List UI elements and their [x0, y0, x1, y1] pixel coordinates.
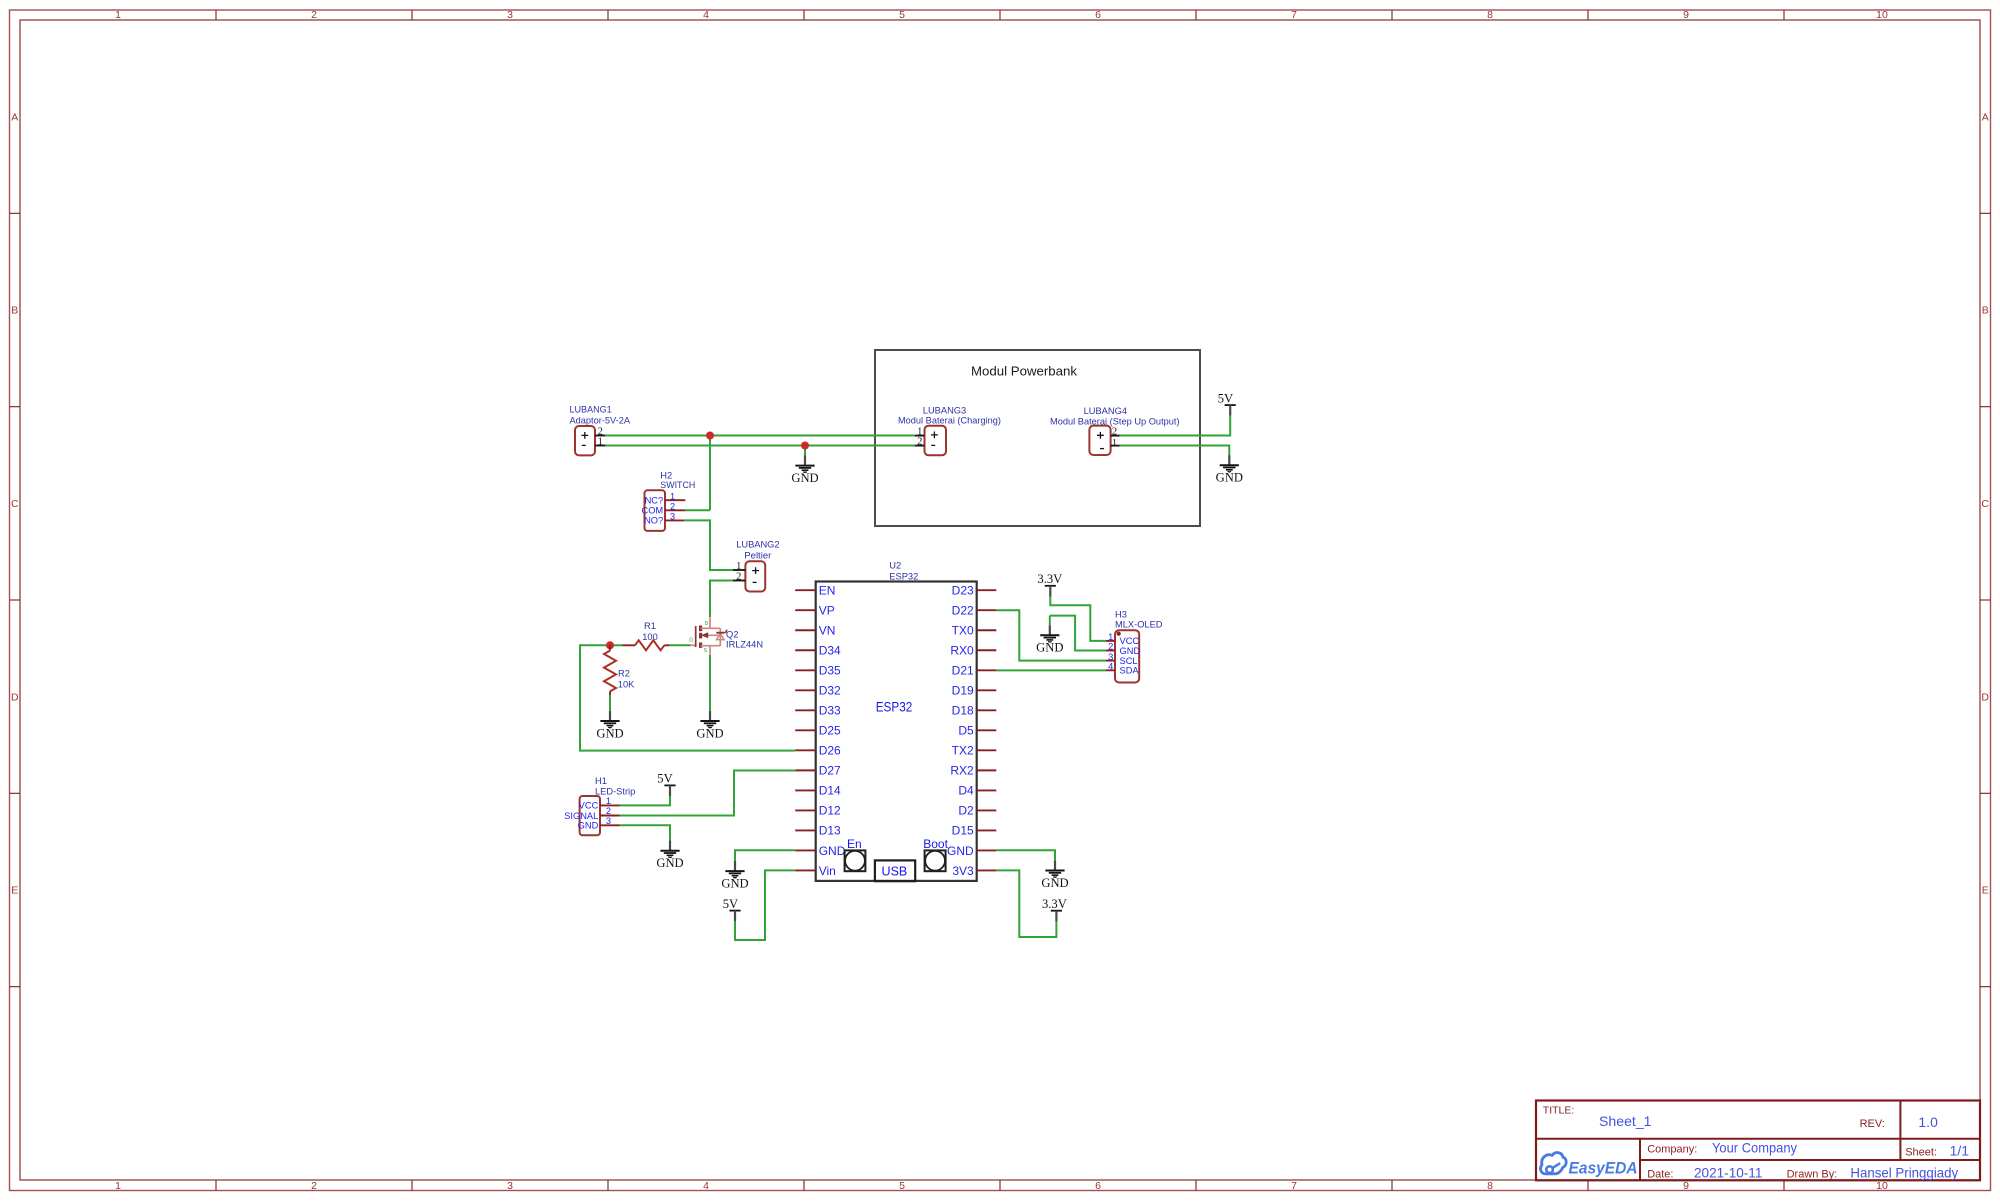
- svg-text:Hansel Pringgiady: Hansel Pringgiady: [1850, 1165, 1958, 1181]
- EasyEDA logo: [1541, 1153, 1638, 1178]
- svg-text:NO?: NO?: [644, 516, 663, 526]
- svg-text:3: 3: [606, 816, 611, 826]
- pin VN (left 3): [795, 624, 835, 638]
- svg-text:2021-10-11: 2021-10-11: [1694, 1165, 1763, 1181]
- svg-text:1/1: 1/1: [1950, 1143, 1970, 1159]
- svg-text:Peltier: Peltier: [744, 551, 771, 561]
- pin D18 (right 7): [952, 704, 997, 718]
- svg-text:D14: D14: [819, 784, 841, 798]
- title block: [1536, 1101, 1980, 1181]
- svg-text:D: D: [11, 691, 19, 703]
- pin Vin (left 15): [795, 864, 836, 878]
- svg-text:100: 100: [642, 632, 658, 642]
- svg-text:MLX-OLED: MLX-OLED: [1115, 619, 1163, 629]
- svg-text:Vin: Vin: [819, 864, 836, 878]
- svg-text:LUBANG1: LUBANG1: [570, 405, 612, 415]
- svg-text:3: 3: [1108, 652, 1113, 662]
- svg-text:GND: GND: [578, 821, 599, 831]
- junction B: [801, 442, 809, 450]
- svg-text:GND: GND: [819, 844, 846, 858]
- wire: [669, 644, 690, 646]
- svg-text:3V3: 3V3: [952, 864, 974, 878]
- connector LUBANG4 Modul Baterai (Step Up Output): [1050, 406, 1180, 455]
- wire: [709, 436, 711, 511]
- svg-text:USB: USB: [882, 864, 908, 878]
- power 5V rail: [1218, 391, 1236, 415]
- svg-text:IRLZ44N: IRLZ44N: [726, 639, 763, 649]
- pin EN (left 1): [795, 584, 835, 598]
- svg-text:RX2: RX2: [950, 764, 974, 778]
- svg-text:3.3V: 3.3V: [1037, 572, 1062, 586]
- svg-text:3: 3: [507, 1180, 513, 1192]
- button En: [845, 837, 866, 871]
- pin D21 (right 5): [952, 664, 997, 678]
- svg-text:SDA: SDA: [1120, 666, 1140, 676]
- svg-text:SIGNAL: SIGNAL: [564, 811, 598, 821]
- wire: [996, 870, 1056, 937]
- pin TX0 (right 3): [952, 624, 997, 638]
- ground LED-Strip: [656, 841, 683, 870]
- pin D13 (left 13): [795, 824, 841, 838]
- svg-text:Sheet_1: Sheet_1: [1599, 1113, 1652, 1129]
- wire: [684, 520, 733, 570]
- pin D25 (left 8): [795, 724, 841, 738]
- svg-text:LUBANG3: LUBANG3: [923, 405, 966, 415]
- wire: [685, 509, 710, 511]
- svg-text:GND: GND: [696, 726, 723, 740]
- svg-text:1: 1: [115, 9, 121, 21]
- pin D23 (right 1): [952, 584, 997, 598]
- svg-text:En: En: [847, 837, 862, 851]
- svg-text:10K: 10K: [618, 680, 635, 690]
- pin RX0 (right 4): [950, 644, 996, 658]
- svg-text:TX2: TX2: [952, 744, 974, 758]
- svg-text:10: 10: [1876, 9, 1888, 21]
- svg-text:D34: D34: [819, 644, 841, 658]
- svg-text:7: 7: [1291, 9, 1297, 21]
- wire: [735, 850, 795, 861]
- connector H2 SWITCH: [641, 471, 695, 531]
- pin RX2 (right 10): [950, 764, 996, 778]
- svg-text:D4: D4: [958, 784, 974, 798]
- svg-text:2: 2: [1108, 642, 1113, 652]
- pin D15 (right 13): [952, 824, 997, 838]
- power 3.3V to OLED VCC: [1037, 572, 1062, 596]
- wire: [1050, 595, 1106, 641]
- svg-text:A: A: [11, 111, 18, 123]
- svg-text:1.0: 1.0: [1918, 1114, 1938, 1130]
- svg-text:Your Company: Your Company: [1712, 1140, 1797, 1156]
- svg-text:D18: D18: [952, 704, 974, 718]
- svg-text:GND: GND: [947, 844, 974, 858]
- power 3.3V to 3V3 pin: [1042, 897, 1067, 921]
- pin TX2 (right 9): [952, 744, 997, 758]
- pin D14 (left 11): [795, 784, 841, 798]
- svg-text:1: 1: [736, 561, 741, 572]
- svg-text:Sheet:: Sheet:: [1905, 1147, 1937, 1159]
- svg-text:D2: D2: [958, 804, 974, 818]
- svg-text:GND: GND: [1036, 641, 1063, 655]
- svg-text:Modul Powerbank: Modul Powerbank: [971, 364, 1077, 379]
- pin GND (left 14): [795, 844, 846, 858]
- svg-text:3: 3: [507, 9, 513, 21]
- svg-text:D23: D23: [952, 584, 974, 598]
- connector LUBANG1 Adaptor-5V-2A: [570, 405, 631, 456]
- svg-text:1: 1: [670, 491, 675, 501]
- svg-text:EasyEDA: EasyEDA: [1569, 1159, 1638, 1178]
- svg-text:2: 2: [917, 437, 922, 448]
- connector LUBANG2 Peltier: [733, 540, 780, 592]
- junction C: [606, 641, 614, 649]
- ground R2: [596, 711, 623, 740]
- ground rail right: [1216, 455, 1243, 484]
- USB port label: [875, 860, 915, 881]
- pin D4 (right 11): [958, 784, 996, 798]
- svg-text:3: 3: [670, 512, 675, 522]
- svg-text:VCC: VCC: [579, 801, 599, 811]
- svg-text:5V: 5V: [723, 897, 738, 911]
- svg-text:S: S: [704, 648, 708, 654]
- wire: [996, 850, 1055, 860]
- pin D26 (left 9): [795, 744, 841, 758]
- svg-text:Boot: Boot: [923, 837, 948, 851]
- svg-text:D: D: [705, 621, 709, 627]
- wire: [620, 825, 671, 840]
- svg-text:2: 2: [311, 9, 317, 21]
- wire: [804, 446, 806, 456]
- svg-text:2: 2: [1112, 426, 1117, 437]
- block Modul Powerbank: [875, 350, 1200, 526]
- pin D34 (left 4): [795, 644, 841, 658]
- svg-text:6: 6: [1095, 9, 1101, 21]
- wire: [609, 695, 611, 711]
- svg-text:1: 1: [115, 1180, 121, 1192]
- svg-text:SCL: SCL: [1120, 656, 1138, 666]
- svg-text:VCC: VCC: [1120, 636, 1140, 646]
- svg-text:D15: D15: [952, 824, 974, 838]
- svg-text:GND: GND: [791, 471, 818, 485]
- pin D22 (right 2): [952, 604, 997, 618]
- svg-text:U2: U2: [889, 560, 901, 570]
- svg-text:E: E: [11, 885, 18, 897]
- svg-text:D13: D13: [819, 824, 841, 838]
- pin D2 (right 12): [958, 804, 996, 818]
- svg-text:GND: GND: [1216, 471, 1243, 485]
- pin D5 (right 8): [958, 724, 996, 738]
- svg-text:9: 9: [1683, 9, 1689, 21]
- svg-text:B: B: [1982, 305, 1989, 317]
- svg-text:REV:: REV:: [1860, 1118, 1885, 1130]
- svg-text:D22: D22: [952, 604, 974, 618]
- pin D35 (left 5): [795, 664, 841, 678]
- pin D27 (left 10): [795, 764, 841, 778]
- ground OLED GND: [1036, 625, 1063, 654]
- wire: [580, 645, 795, 750]
- svg-text:Q2: Q2: [726, 629, 738, 639]
- svg-text:VN: VN: [819, 624, 836, 638]
- svg-text:A: A: [1982, 111, 1989, 123]
- svg-text:8: 8: [1487, 1180, 1493, 1192]
- svg-text:4: 4: [703, 9, 709, 21]
- svg-text:D35: D35: [819, 664, 841, 678]
- svg-text:E: E: [1982, 885, 1989, 897]
- svg-text:1: 1: [598, 436, 603, 447]
- svg-text:TITLE:: TITLE:: [1543, 1104, 1575, 1116]
- wire: [710, 581, 733, 618]
- svg-text:D12: D12: [819, 804, 841, 818]
- ground ESP32 GND right: [1041, 860, 1068, 889]
- svg-text:Drawn By:: Drawn By:: [1787, 1169, 1838, 1181]
- svg-text:Modul Baterai (Step Up Output): Modul Baterai (Step Up Output): [1050, 416, 1180, 426]
- wire: [610, 644, 623, 646]
- svg-text:LED-Strip: LED-Strip: [595, 787, 635, 797]
- pin D33 (left 7): [795, 704, 841, 718]
- svg-text:4: 4: [1108, 662, 1113, 672]
- frame row labels: [11, 111, 1989, 896]
- svg-text:10: 10: [1876, 1180, 1888, 1192]
- svg-text:C: C: [11, 498, 19, 510]
- connector H1 LED-Strip: [564, 776, 635, 835]
- wire: [1050, 616, 1106, 651]
- svg-text:2: 2: [606, 806, 611, 816]
- svg-text:G: G: [689, 638, 693, 644]
- svg-text:1: 1: [1112, 438, 1117, 449]
- wire: [996, 669, 1106, 671]
- svg-text:2: 2: [736, 571, 741, 582]
- svg-text:LUBANG2: LUBANG2: [736, 540, 779, 550]
- svg-text:GND: GND: [721, 876, 748, 890]
- wire: [620, 771, 796, 816]
- pin 3V3 (right 15): [952, 864, 996, 878]
- resistor R1 100: [623, 621, 670, 650]
- svg-text:6: 6: [1095, 1180, 1101, 1192]
- svg-text:D21: D21: [952, 664, 974, 678]
- ic U2 ESP32: [816, 560, 977, 881]
- svg-text:1: 1: [1108, 632, 1113, 642]
- svg-text:GND: GND: [1041, 876, 1068, 890]
- power 5V LED-Strip: [657, 772, 675, 796]
- svg-text:D25: D25: [819, 724, 841, 738]
- wire: [620, 795, 671, 805]
- power 5V Vin: [723, 897, 741, 921]
- svg-text:D5: D5: [958, 724, 974, 738]
- pin D19 (right 6): [952, 684, 997, 698]
- junction A: [706, 432, 714, 440]
- svg-text:9: 9: [1683, 1180, 1689, 1192]
- svg-text:ESP32: ESP32: [889, 572, 918, 582]
- transistor Q2 IRLZ44N: [689, 617, 763, 655]
- svg-text:GND: GND: [656, 856, 683, 870]
- svg-text:R1: R1: [644, 621, 656, 631]
- connector LUBANG3 Modul Baterai (Charging): [898, 405, 1001, 455]
- title block texts: [1543, 1104, 1969, 1180]
- svg-text:5V: 5V: [1218, 391, 1233, 405]
- svg-text:8: 8: [1487, 9, 1493, 21]
- svg-text:4: 4: [703, 1180, 709, 1192]
- wire: [605, 435, 915, 437]
- svg-text:B: B: [11, 305, 18, 317]
- svg-text:TX0: TX0: [952, 624, 974, 638]
- svg-text:D33: D33: [819, 704, 841, 718]
- pin D12 (left 12): [795, 804, 841, 818]
- svg-text:COM: COM: [641, 506, 663, 516]
- ground rail left: [791, 456, 818, 485]
- wire: [1120, 416, 1231, 436]
- svg-text:SWITCH: SWITCH: [660, 480, 695, 490]
- svg-text:Adaptor-5V-2A: Adaptor-5V-2A: [570, 415, 631, 425]
- resistor R2 10K: [604, 645, 635, 695]
- svg-text:Date:: Date:: [1647, 1169, 1673, 1181]
- button Boot: [923, 837, 948, 871]
- svg-text:3.3V: 3.3V: [1042, 897, 1067, 911]
- svg-text:H1: H1: [595, 776, 607, 786]
- svg-text:5: 5: [899, 1180, 905, 1192]
- svg-text:2: 2: [670, 502, 675, 512]
- svg-text:5: 5: [899, 9, 905, 21]
- svg-text:C: C: [1981, 498, 1989, 510]
- wire: [996, 610, 1106, 660]
- svg-text:D26: D26: [819, 744, 841, 758]
- wire: [735, 870, 795, 940]
- svg-text:5V: 5V: [657, 772, 672, 786]
- ground ESP32 GND left: [721, 861, 748, 890]
- svg-text:ESP32: ESP32: [876, 699, 913, 715]
- svg-text:EN: EN: [819, 584, 836, 598]
- svg-text:LUBANG4: LUBANG4: [1084, 406, 1127, 416]
- wire: [605, 445, 915, 447]
- svg-text:R2: R2: [618, 668, 630, 678]
- pin D32 (left 6): [795, 684, 841, 698]
- svg-text:Company:: Company:: [1647, 1144, 1697, 1156]
- pin VP (left 2): [795, 604, 835, 618]
- svg-text:RX0: RX0: [950, 644, 974, 658]
- svg-text:GND: GND: [596, 726, 623, 740]
- wire: [1049, 616, 1051, 626]
- svg-text:Modul Baterai (Charging): Modul Baterai (Charging): [898, 415, 1001, 425]
- svg-text:NC?: NC?: [645, 495, 664, 505]
- wire: [1120, 446, 1230, 456]
- pin GND (right 14): [947, 844, 996, 858]
- svg-text:7: 7: [1291, 1180, 1297, 1192]
- svg-text:VP: VP: [819, 604, 835, 618]
- svg-text:H3: H3: [1115, 609, 1127, 619]
- ground Q2 source: [696, 711, 723, 740]
- wire: [709, 655, 711, 711]
- svg-text:D: D: [1981, 691, 1989, 703]
- connector H3 MLX-OLED: [1106, 609, 1163, 682]
- svg-text:D32: D32: [819, 684, 841, 698]
- svg-text:D27: D27: [819, 764, 841, 778]
- svg-text:2: 2: [311, 1180, 317, 1192]
- svg-text:GND: GND: [1120, 646, 1141, 656]
- svg-text:D19: D19: [952, 684, 974, 698]
- svg-text:1: 1: [606, 796, 611, 806]
